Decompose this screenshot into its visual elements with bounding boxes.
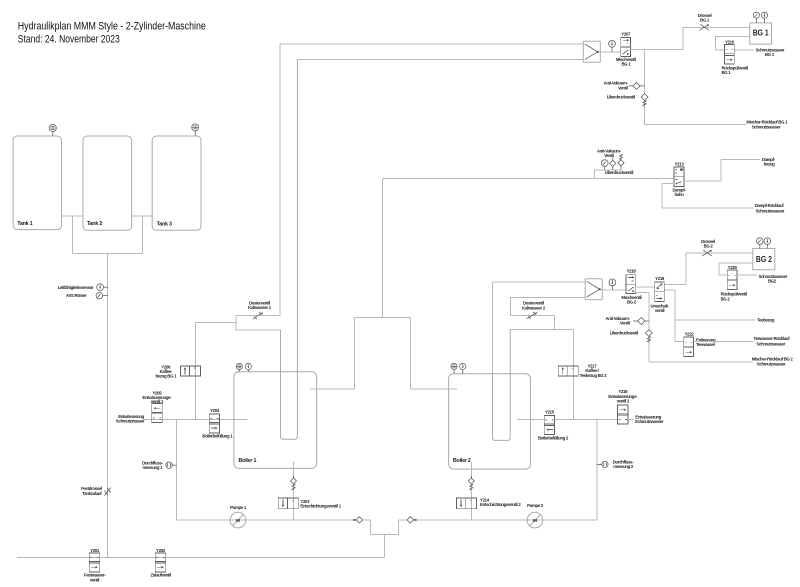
gauge 1 on BG 2 [757,238,764,249]
throttle Drossel BG 1 [698,13,712,30]
wire trap to bottom line [383,535,385,558]
sensor Leitfaehigkeitssensor [58,284,108,291]
valve Y204 Boilerbefuellung 1 [202,408,233,438]
wire mixer BG1 out [600,51,621,53]
dosing valve Dosierventil Kaltwasser 2 [510,297,585,329]
wire main pump line [177,519,597,521]
wire Y219 to tee branch [664,290,675,342]
valve Y202 Zulaufventil [150,548,171,578]
wire mixer BG1 bottom feed [297,58,583,60]
wire Mischer-Ruecklauf BG 1 [645,120,788,130]
brew group BG 1 [750,23,772,44]
svg-text:Überdruckventil: Überdruckventil [605,170,633,175]
wire Y217 drop line [573,330,575,420]
svg-text:Boilerbefüllung 2: Boilerbefüllung 2 [538,436,569,441]
svg-text:Schmutzwasser: Schmutzwasser [635,419,664,424]
fixed throttle Festdrossel Tankzulauf [81,486,111,496]
valve Y207 Mischventil BG 1 [616,31,636,66]
overpressure valve BG2 [610,330,653,342]
svg-text:messung 1: messung 1 [142,465,163,470]
wire boiler2 fill line [517,419,544,421]
valve Y218 Mischventil BG 2 [621,269,641,305]
svg-text:Y218: Y218 [627,269,637,274]
svg-text:Y213: Y213 [675,161,685,166]
svg-text:AVS Römer: AVS Römer [66,293,87,298]
svg-text:Pumpe 2: Pumpe 2 [527,503,544,508]
wire Dampf-Ruecklauf [662,184,785,214]
svg-text:Boilerbefüllung 1: Boilerbefüllung 1 [202,434,233,439]
anti vacuum valve BG2 [606,316,649,326]
wire fresh water bottom line [17,557,384,559]
svg-text:Überdruckventil: Überdruckventil [607,95,635,100]
svg-text:Ventil: Ventil [618,85,628,90]
tank Tank 3 [152,136,201,230]
svg-text:Leitfähigkeitssensor: Leitfähigkeitssensor [58,285,94,290]
wire BG2 backflush [719,263,753,275]
wire Y207 return drop [644,50,646,125]
check valve on pump line left [353,517,362,523]
svg-text:BG2: BG2 [768,279,777,284]
svg-text:bezug BG 1: bezug BG 1 [155,374,177,379]
gauge 2 on BG 2 [764,238,771,249]
wire Y207 out [631,49,683,51]
valve Y216 Entwaesserungsventil 2 [608,389,638,424]
svg-text:Schmutzwasser: Schmutzwasser [756,342,785,347]
title block [18,20,206,45]
wire cold riser to mixer BG1 [279,44,281,316]
svg-text:Y222: Y222 [685,332,695,337]
wire tank1 to tank2 [62,215,84,217]
wire boiler2 dip tube [493,330,511,441]
wire riser to Drossel BG1 [683,27,750,49]
valve Y203 Entschichtungsventil 1 [278,498,341,509]
flow meter Durchflussmessung 1 [142,460,176,470]
svg-text:messung 2: messung 2 [613,464,634,469]
wire pump suction left [176,420,178,520]
wire tank manifold [72,216,142,254]
svg-text:Pumpe 1: Pumpe 1 [230,505,247,510]
valve Y214 Entschichtungsventil 2 [457,498,522,509]
dosing valve Dosierventil Kaltwasser 1 [236,301,281,331]
anti vacuum valve steam [597,148,622,170]
valve Y219 Umschaltventil [651,276,670,313]
gauge at mixer BG1 [609,40,616,51]
wire steam main line [383,178,674,180]
breather vent on Tank 1 [49,124,56,136]
mixing unit BG2 [585,279,602,300]
svg-text:Schmutzwasser: Schmutzwasser [752,125,781,130]
gauge 1 on BG 1 [753,12,759,23]
svg-text:Y202: Y202 [156,548,166,553]
svg-text:BG 1: BG 1 [700,18,710,23]
svg-text:Schmutzwasser: Schmutzwasser [116,419,145,424]
svg-text:ventil: ventil [90,577,100,582]
wire fill line Y215 to Y216 [555,419,618,421]
svg-text:BG 1: BG 1 [753,28,769,37]
mixing unit BG1 [583,41,600,62]
svg-text:BG 2: BG 2 [721,296,731,301]
throttle Drossel BG 2 [701,239,715,256]
svg-text:Teebezug: Teebezug [757,318,775,323]
svg-text:Schmutzwasser: Schmutzwasser [757,362,786,367]
wire Y216 out Entwaesserung [628,415,664,425]
wire BG1 backflush [716,36,750,50]
brew group BG 2 [753,249,775,270]
svg-text:Tank 3: Tank 3 [157,221,172,227]
overpressure valve BG1 [607,94,648,106]
svg-text:Tankzulauf: Tankzulauf [82,491,102,496]
wire tank2 to tank3 [132,215,153,217]
wire steam header [310,179,457,389]
flow meter Durchflussmessung 2 [597,460,634,470]
svg-text:Stand: 24. November 2023: Stand: 24. November 2023 [18,34,120,46]
wire pump2 riser [596,420,598,520]
wire Y218 return drop [636,293,649,362]
svg-text:Ventil: Ventil [620,320,630,325]
svg-text:hahn: hahn [674,192,684,197]
wire Y206 to dosier loop [195,322,236,324]
breather vent on Tank 3 [192,124,199,136]
svg-text:BG 1: BG 1 [765,52,775,57]
wire Mischer-Ruecklauf BG 2 [649,356,793,366]
valve Y220 Rueckspuelventil BG 2 [721,265,747,301]
svg-text:Teewasser-Rücklauf: Teewasser-Rücklauf [754,336,791,341]
vessel Boiler 2 [449,374,531,469]
wire trap dip [371,520,399,535]
svg-text:M: M [533,518,537,524]
svg-text:Y219: Y219 [655,276,665,281]
svg-text:Y204: Y204 [210,408,220,413]
wire Y206 riser [194,323,196,420]
overpressure valve steam [605,154,633,175]
svg-text:ventil 1: ventil 1 [151,399,164,404]
wire Y218 to Y219 [636,286,655,288]
wire Teebezug [675,318,775,323]
svg-text:Dampf-Rücklauf: Dampf-Rücklauf [755,203,785,208]
wire tee water line [510,329,573,331]
svg-text:Boiler 1: Boiler 1 [239,458,257,464]
vessel Boiler 1 [234,372,317,469]
valve Y201 Festwasserventil [84,548,106,583]
sensor AVS Roemer [66,292,108,299]
svg-text:Y201: Y201 [90,548,100,553]
wire mixer BG1 top feed [280,43,584,45]
svg-text:M: M [236,518,240,524]
svg-text:Kaltwasser 1: Kaltwasser 1 [248,305,272,310]
relief valve above Y214 [468,478,474,484]
breather vent on Boiler 1 [236,363,242,372]
svg-text:Y215: Y215 [545,410,555,415]
wire boiler1 fill line [144,419,247,421]
svg-text:Y210: Y210 [725,39,735,44]
svg-text:Teebezug BG 2: Teebezug BG 2 [580,373,608,378]
wire steam safety manifold [595,170,621,179]
wire Dampfbezug [684,157,776,181]
svg-text:Tank 1: Tank 1 [17,221,32,227]
valve Y217 Kaffee-Teebezug BG 2 [558,364,607,378]
svg-text:Überdruckventil: Überdruckventil [610,331,638,336]
check valve on pump line right [407,517,416,523]
wire boiler2 dip feed to mixer BG2 [493,282,586,374]
svg-text:Y220: Y220 [728,265,738,270]
valve Y215 Boilerbefuellung 2 [538,410,569,441]
wire Teewasser-Ruecklauf [694,336,791,346]
breather vent on Boiler 2 [451,363,457,374]
gauge at mixer BG2 [609,279,616,290]
tank Tank 1 [13,136,61,230]
svg-text:Zulaufventil: Zulaufventil [150,573,171,578]
svg-text:BG 2: BG 2 [756,255,772,264]
relief valve above Y203 [291,478,297,484]
valve Y213 Dampfhahn [673,161,687,197]
gauge 2 on BG 1 [761,12,767,23]
valve Y205 Entwaesserungsventil 1 [116,391,172,424]
svg-text:ventil: ventil [655,308,665,313]
svg-text:bezug: bezug [764,162,776,167]
svg-text:Hydraulikplan MMM Style - 2-Zy: Hydraulikplan MMM Style - 2-Zylinder-Mas… [18,20,206,32]
gauge on steam manifold [601,160,608,170]
wire boiler2 drain [470,462,472,520]
wire boiler1 drain [293,462,295,520]
wire boiler1 dip tube [281,59,298,439]
svg-text:Ventil: Ventil [604,153,614,158]
anti vacuum valve BG1 [604,81,645,91]
pump Pumpe 1 [230,505,247,528]
svg-text:Schmutzwasser: Schmutzwasser [756,208,785,213]
svg-text:Teewasser: Teewasser [696,342,716,347]
svg-text:ventil 2: ventil 2 [617,398,630,403]
wire tank down pipe [107,254,109,558]
valve Y210 Rueckspuelventil BG 1 [722,39,748,75]
gauge on Boiler 2 [460,363,466,374]
svg-text:BG 1: BG 1 [621,61,631,66]
svg-text:Entschichtungsventil 2: Entschichtungsventil 2 [480,502,521,507]
svg-text:BG 1: BG 1 [722,70,732,75]
wire mixer BG2 out [602,289,626,291]
svg-text:Kaltwasser 2: Kaltwasser 2 [522,305,546,310]
svg-text:Entschichtungsventil 1: Entschichtungsventil 1 [300,504,341,509]
wire Y210 out Schmutzwasser BG 1 [734,47,785,57]
svg-text:Boiler 2: Boiler 2 [453,458,471,464]
svg-text:Tank 2: Tank 2 [87,221,102,227]
valve Y222 Entleerung Teewasser [675,332,716,357]
tank Tank 2 [83,136,132,230]
wire Y219 to Drossel BG2 [664,253,753,285]
pump Pumpe 2 [527,503,544,528]
svg-text:Y207: Y207 [621,31,631,36]
svg-text:BG 2: BG 2 [704,244,714,249]
svg-text:BG 2: BG 2 [627,300,637,305]
valve Y206 Kaffeebezug BG 1 [155,364,200,378]
gauge on Boiler 1 [245,363,251,372]
wire Y220 out Schmutzwasser BG2 [737,274,788,284]
